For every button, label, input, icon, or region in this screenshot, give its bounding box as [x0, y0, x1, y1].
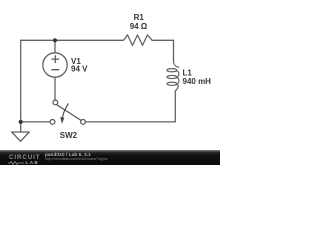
svg-text:R1: R1 [134, 13, 145, 22]
svg-text:940 mH: 940 mH [183, 77, 212, 86]
svg-text:94 Ω: 94 Ω [130, 22, 148, 31]
svg-text:94 V: 94 V [71, 65, 88, 74]
svg-text:SW2: SW2 [60, 131, 78, 140]
